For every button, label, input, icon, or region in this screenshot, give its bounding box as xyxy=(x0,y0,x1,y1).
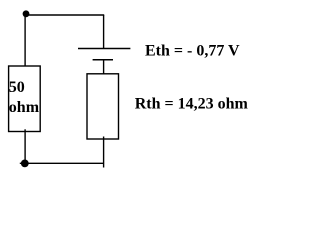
resistor 50 ohm (body) xyxy=(9,66,41,132)
svg-text:50: 50 xyxy=(9,79,25,96)
node B (bottom-left junction dot) xyxy=(21,160,29,168)
wire top horizontal xyxy=(25,14,104,16)
wire Rth bottom lead xyxy=(103,137,105,168)
node A (top-left junction dot) xyxy=(23,10,30,17)
battery Eth negative plate xyxy=(93,59,113,61)
wire battery top lead xyxy=(103,15,105,49)
svg-text:Eth = - 0,77 V: Eth = - 0,77 V xyxy=(145,42,240,59)
wire battery to Rth xyxy=(103,60,105,77)
resistor Rth (body) xyxy=(87,74,119,139)
svg-text:Rth = 14,23 ohm: Rth = 14,23 ohm xyxy=(135,95,249,112)
wire left branch lower xyxy=(24,129,26,163)
svg-text:ohm: ohm xyxy=(9,99,40,116)
wire left branch upper xyxy=(24,14,26,69)
battery Eth positive plate xyxy=(78,48,130,50)
wire bottom horizontal xyxy=(20,162,104,164)
